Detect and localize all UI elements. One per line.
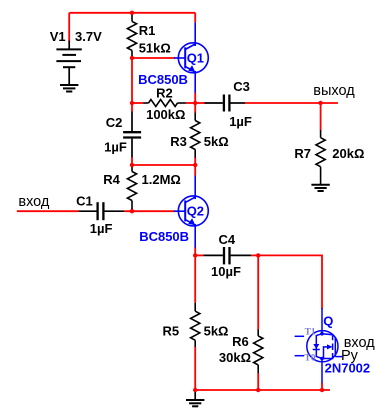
- resistor R1: [127, 14, 136, 57]
- junction dot R3 bottom: [193, 163, 197, 167]
- wire R4 bottom stub: [131, 209, 133, 212]
- wire R4 top stub: [131, 165, 133, 168]
- svg-text:3.7V: 3.7V: [75, 29, 102, 44]
- mosfet internal drain dot: [320, 332, 324, 336]
- svg-text:5kΩ: 5kΩ: [204, 134, 229, 149]
- wire C1 right to R4 node to Q2 base: [124, 210, 175, 212]
- wire R6 top: [257, 255, 259, 329]
- mosfet internal source dot: [320, 357, 324, 361]
- svg-text:5kΩ: 5kΩ: [204, 323, 229, 338]
- junction dot bottom rail left: [193, 388, 197, 392]
- wire C4 left stub: [195, 254, 203, 256]
- svg-text:C2: C2: [106, 115, 123, 130]
- svg-text:C1: C1: [76, 193, 93, 208]
- svg-text:BC850B: BC850B: [138, 72, 188, 87]
- junction dot C2 bottom: [130, 163, 134, 167]
- wire R1 bottom node to base row: [132, 56, 175, 59]
- svg-text:30kΩ: 30kΩ: [219, 350, 251, 365]
- svg-text:1µF: 1µF: [90, 221, 113, 236]
- wire R5 bottom: [194, 347, 196, 390]
- svg-text:BC850B: BC850B: [139, 229, 189, 244]
- svg-text:Q1: Q1: [187, 51, 204, 66]
- svg-text:C4: C4: [219, 232, 236, 247]
- wire Q2 emitter to C4 node: [194, 247, 196, 256]
- junction dot rail R1: [130, 11, 134, 15]
- svg-text:Q: Q: [323, 314, 333, 329]
- resistor R3: [191, 113, 200, 158]
- wire C4 right to node: [251, 254, 258, 256]
- capacitor C4: [203, 247, 251, 264]
- wire R1 node down to C2 node: [131, 58, 133, 103]
- svg-text:Ру: Ру: [341, 348, 359, 364]
- junction dot R1 bottom: [130, 56, 134, 60]
- svg-text:1µF: 1µF: [104, 140, 127, 155]
- transistor Q1: [174, 23, 208, 93]
- wire vhod input to C1: [17, 210, 79, 212]
- svg-text:T0: T0: [304, 354, 315, 364]
- junction dot C4 right node: [256, 253, 260, 257]
- mosfet unconnected pin T0: [295, 355, 305, 357]
- svg-text:вход: вход: [18, 194, 50, 210]
- wire R3 bottom stub: [194, 158, 196, 166]
- wire Q1 emitter to node: [194, 93, 196, 103]
- wire C3 right to vyhod node: [245, 102, 338, 104]
- svg-text:100kΩ: 100kΩ: [146, 107, 185, 122]
- wire V1 top: [68, 13, 70, 42]
- wire R2 right stub: [186, 102, 195, 104]
- wire bottom rail: [195, 389, 330, 391]
- svg-text:10µF: 10µF: [211, 264, 241, 279]
- capacitor C1: [78, 202, 124, 220]
- wire node to C3 left: [195, 102, 205, 104]
- junction dot R6 bottom: [256, 388, 260, 392]
- ground (bottom rail): [186, 392, 204, 407]
- svg-text:V1: V1: [50, 29, 66, 44]
- junction dot Q2 emitter node: [193, 253, 197, 257]
- ground (V1): [60, 85, 78, 92]
- transistor Q2: [174, 176, 208, 248]
- resistor R5: [191, 303, 200, 347]
- wire top rail: [69, 12, 195, 14]
- capacitor C3: [205, 95, 246, 112]
- junction dot Q1 emitter node: [193, 101, 197, 105]
- battery V1: [56, 41, 81, 85]
- svg-text:R3: R3: [170, 134, 187, 149]
- wire R3 node to Q2 collector: [194, 165, 196, 176]
- svg-text:выход: выход: [313, 83, 355, 99]
- junction dot mosfet source: [320, 388, 324, 392]
- resistor R7: [316, 130, 325, 185]
- resistor R2: [143, 100, 186, 107]
- wire mosfet source bottom: [321, 383, 323, 391]
- wire vyhod node to R7: [320, 103, 322, 131]
- svg-text:51kΩ: 51kΩ: [139, 41, 171, 56]
- junction dot C2 top: [130, 101, 134, 105]
- resistor R4: [127, 167, 136, 209]
- svg-text:1.2MΩ: 1.2MΩ: [142, 172, 181, 187]
- svg-text:R2: R2: [156, 86, 173, 101]
- svg-text:T1: T1: [305, 327, 316, 337]
- junction dot выход: [318, 101, 322, 105]
- svg-text:1µF: 1µF: [229, 114, 252, 129]
- ground (R7): [311, 185, 329, 191]
- capacitor C2: [123, 112, 141, 158]
- svg-text:20kΩ: 20kΩ: [332, 146, 364, 161]
- mosfet unconnected pin T1: [295, 335, 305, 337]
- wire R3 top stub: [194, 103, 196, 113]
- svg-text:R6: R6: [232, 334, 249, 349]
- wire C4 node to mosfet drain drop: [258, 255, 322, 309]
- svg-text:R1: R1: [139, 23, 156, 38]
- wire C2 bottom stub: [131, 157, 133, 165]
- wire R2 left stub: [132, 102, 143, 104]
- junction dot C1-R4: [130, 209, 134, 213]
- mosfet Q 2N7002: [307, 308, 343, 383]
- svg-text:R7: R7: [294, 146, 311, 161]
- wire row C2 node to R3 node: [132, 164, 195, 166]
- svg-text:Q2: Q2: [187, 204, 204, 219]
- wire R5 top: [194, 255, 196, 302]
- wire C2 top stub: [131, 103, 133, 112]
- svg-text:R4: R4: [103, 172, 120, 187]
- resistor R6: [254, 330, 263, 374]
- svg-text:R5: R5: [163, 323, 180, 338]
- svg-text:C3: C3: [233, 79, 250, 94]
- wire Q1 collector drop: [194, 13, 196, 23]
- wire R6 bottom: [257, 373, 259, 390]
